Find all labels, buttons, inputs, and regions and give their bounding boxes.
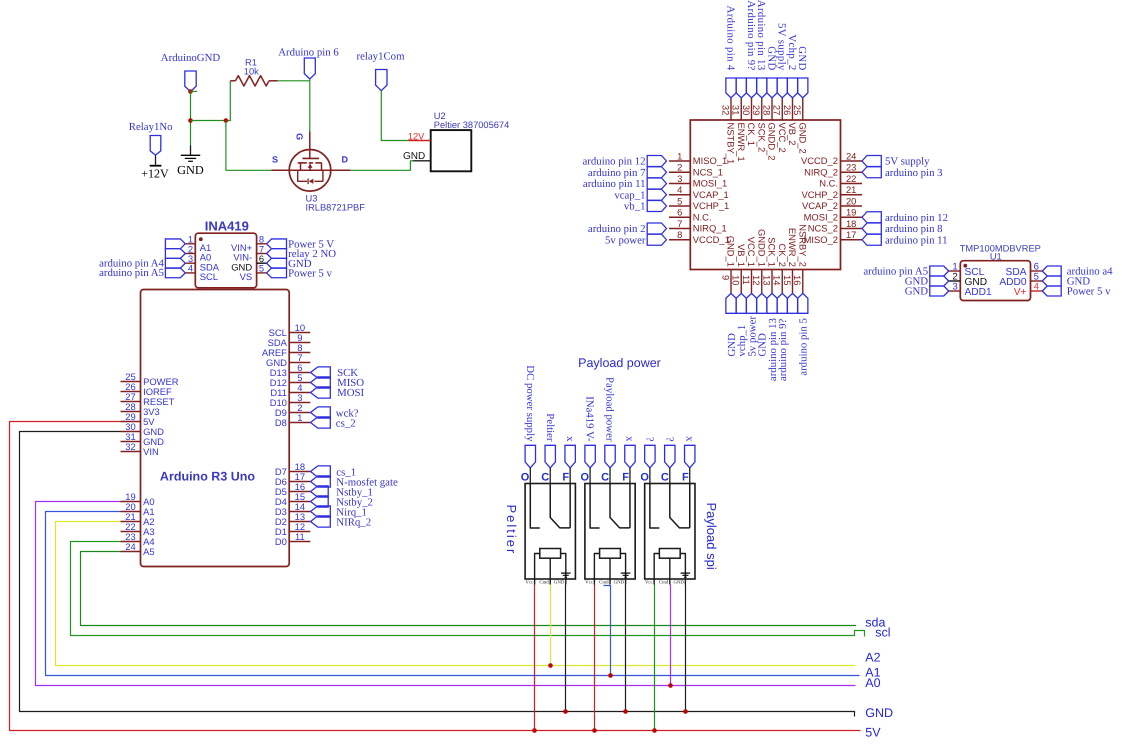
svg-text:28: 28 — [761, 105, 772, 115]
relay connector Payload spi — [645, 484, 695, 580]
svg-text:12: 12 — [751, 275, 762, 285]
svg-text:MISO_1: MISO_1 — [693, 155, 727, 166]
svg-text:3: 3 — [952, 282, 957, 293]
svg-text:19: 19 — [846, 207, 856, 218]
svg-text:O: O — [581, 471, 590, 483]
svg-text:6: 6 — [677, 207, 682, 218]
svg-text:S: S — [272, 155, 278, 165]
U4 top flags — [726, 78, 736, 98]
svg-text:25: 25 — [792, 105, 803, 115]
wire Relay1No to +12V — [155, 155, 157, 165]
svg-text:VIN: VIN — [143, 446, 159, 457]
svg-text:17: 17 — [846, 229, 856, 240]
svg-text:Cmd: Cmd — [539, 580, 549, 586]
svg-text:16: 16 — [792, 275, 803, 285]
svg-text:GNDD_1: GNDD_1 — [756, 229, 767, 267]
svg-text:x: x — [624, 436, 636, 442]
svg-text:NCS_1: NCS_1 — [693, 166, 723, 177]
Payload spi coil — [659, 549, 680, 559]
svg-text:DC power supply: DC power supply — [524, 365, 536, 442]
svg-text:D8: D8 — [275, 417, 287, 428]
U4 left pins 1-8 — [669, 160, 690, 162]
svg-text:Arduino pin 13: Arduino pin 13 — [755, 0, 767, 71]
svg-text:IRLB8721PBF: IRLB8721PBF — [306, 202, 366, 212]
svg-text:23: 23 — [846, 162, 856, 173]
svg-text:Power 5 v: Power 5 v — [1067, 286, 1111, 298]
svg-text:2: 2 — [677, 162, 682, 173]
svg-text:5: 5 — [677, 195, 682, 206]
svg-text:Vcc: Vcc — [645, 580, 653, 586]
U3 pin D — [331, 169, 351, 171]
svg-text:SCK_2: SCK_2 — [756, 123, 767, 153]
svg-text:Cmd: Cmd — [599, 580, 609, 586]
svg-text:31: 31 — [731, 105, 742, 115]
svg-text:Arduino pin 6: Arduino pin 6 — [278, 47, 339, 59]
svg-text:vb_1: vb_1 — [624, 201, 646, 213]
svg-text:29: 29 — [751, 105, 762, 115]
wire node B up to R1 — [229, 81, 231, 121]
svg-text:ENWR_1: ENWR_1 — [736, 123, 747, 162]
svg-text:Arduino pin 4: Arduino pin 4 — [724, 6, 736, 71]
svg-text:10: 10 — [731, 275, 742, 285]
svg-text:arduino pin 11: arduino pin 11 — [583, 178, 646, 190]
wire sda — [81, 552, 857, 626]
svg-text:SCK_1: SCK_1 — [767, 237, 778, 267]
relay connector Peltier — [525, 484, 575, 580]
U4 bottom pins 9-16 — [730, 270, 732, 294]
svg-text:O: O — [521, 471, 530, 483]
svg-text:A2: A2 — [865, 651, 880, 665]
junction at ArduinoGND flag — [188, 89, 193, 94]
wire A2 — [56, 522, 856, 666]
svg-text:Vcc: Vcc — [585, 580, 593, 586]
U1 left flags — [930, 266, 949, 276]
svg-text:CK_2: CK_2 — [777, 244, 788, 267]
junction 5V Vcc2 — [592, 728, 597, 733]
wire Cmd Payload power connector — [604, 586, 611, 676]
svg-text:VCC_2: VCC_2 — [777, 123, 788, 153]
svg-text:D: D — [341, 155, 348, 165]
svg-text:VCCD_2: VCCD_2 — [801, 155, 838, 166]
svg-text:MOSI_1: MOSI_1 — [693, 178, 727, 189]
svg-text:x: x — [683, 436, 695, 442]
svg-text:GND: GND — [554, 580, 565, 586]
svg-text:1: 1 — [677, 150, 682, 161]
svg-text:3: 3 — [677, 173, 682, 184]
svg-text:D0: D0 — [275, 536, 287, 547]
svg-text:8: 8 — [677, 229, 682, 240]
svg-text:F: F — [682, 471, 689, 483]
svg-text:GND: GND — [614, 580, 625, 586]
junction GND3 — [683, 709, 688, 714]
svg-text:27: 27 — [772, 105, 783, 115]
wire scl — [71, 542, 865, 637]
svg-text:+12V: +12V — [141, 166, 169, 180]
U1 right pins 4-6 — [1031, 270, 1043, 272]
svg-text:ENWR_2: ENWR_2 — [787, 228, 798, 267]
wire R1 to Arduino pin 6 node — [278, 80, 310, 82]
svg-text:NIRQ_2: NIRQ_2 — [804, 166, 838, 177]
U4 right pins 17-24 — [841, 160, 863, 162]
svg-text:Payload power: Payload power — [578, 356, 661, 370]
svg-text:VCAP_2: VCAP_2 — [802, 200, 838, 211]
svg-text:12V: 12V — [408, 131, 425, 141]
svg-text:5V supply: 5V supply — [776, 23, 788, 71]
svg-text:C: C — [541, 471, 549, 483]
svg-text:A0: A0 — [865, 676, 880, 690]
svg-text:4: 4 — [677, 184, 682, 195]
svg-text:VB_2: VB_2 — [787, 123, 798, 146]
svg-text:MOSI: MOSI — [337, 387, 364, 399]
svg-text:VB_1: VB_1 — [736, 244, 747, 267]
svg-text:vcap_1: vcap_1 — [614, 189, 645, 201]
wire A0 — [36, 502, 856, 686]
svg-text:Payload power: Payload power — [604, 377, 616, 442]
svg-text:INA419: INA419 — [205, 219, 249, 234]
junction A1 Cmd2 — [608, 673, 613, 678]
wire gate net — [309, 79, 311, 132]
svg-text:INa419 V-: INa419 V- — [584, 396, 596, 442]
flags cs_1 group on D7-D2 — [311, 466, 331, 477]
junction A2 Cmd1 — [548, 663, 553, 668]
svg-text:15: 15 — [782, 275, 793, 285]
mcu board Arduino R3 Uno — [141, 290, 290, 567]
svg-text:Peltier: Peltier — [544, 413, 556, 442]
svg-text:arduino pin 9?: arduino pin 9? — [777, 319, 789, 382]
svg-text:Vcc: Vcc — [525, 580, 533, 586]
junction GND1 — [563, 709, 568, 714]
svg-text:5: 5 — [259, 263, 264, 274]
wire GND Peltier connector — [565, 585, 567, 712]
svg-text:13: 13 — [761, 275, 772, 285]
svg-text:F: F — [622, 471, 629, 483]
svg-text:ADD1: ADD1 — [965, 287, 993, 298]
Payload power coil — [600, 549, 621, 559]
wire GND — [20, 432, 855, 717]
svg-text:NCS_2: NCS_2 — [808, 223, 838, 234]
svg-text:VCHP_2: VCHP_2 — [802, 189, 838, 200]
svg-text:arduino pin 11: arduino pin 11 — [885, 234, 948, 246]
Arduino right pins 1-10 — [289, 332, 310, 334]
Arduino left pins 25-32 — [121, 381, 141, 383]
svg-text:GND: GND — [177, 163, 204, 177]
svg-text:MOSI_2: MOSI_2 — [804, 211, 838, 222]
Payload spi internal ground — [681, 572, 691, 574]
svg-text:N.C.: N.C. — [693, 211, 712, 222]
svg-text:24: 24 — [125, 541, 135, 552]
svg-text:NSRBY_2: NSRBY_2 — [797, 224, 808, 267]
U5 right flags — [267, 239, 287, 249]
svg-text:30: 30 — [741, 105, 752, 115]
wire GND Payload power connector — [625, 585, 627, 712]
svg-text:GND_2: GND_2 — [797, 123, 808, 154]
wire Vcc Peltier connector — [534, 585, 536, 731]
svg-text:4: 4 — [188, 263, 193, 274]
junction 5V Vcc3 — [652, 728, 657, 733]
svg-text:Relay1No: Relay1No — [129, 121, 173, 133]
svg-text:C: C — [661, 471, 669, 483]
svg-text:Peltier: Peltier — [504, 505, 519, 556]
svg-text:VCCD_1: VCCD_1 — [693, 234, 730, 245]
svg-text:Payload spi: Payload spi — [704, 503, 719, 570]
svg-text:arduino pin 8: arduino pin 8 — [885, 223, 943, 235]
svg-text:Power 5 v: Power 5 v — [288, 268, 332, 280]
ground symbol GND — [190, 146, 192, 156]
svg-text:CK_1: CK_1 — [746, 123, 757, 146]
svg-text:arduino pin 5: arduino pin 5 — [798, 318, 810, 376]
svg-text:22: 22 — [846, 173, 856, 184]
wire Vcc Payload power connector — [594, 585, 596, 731]
svg-text:24: 24 — [846, 150, 856, 161]
U5 right pins 5-8 — [257, 243, 267, 245]
svg-text:GND_1: GND_1 — [726, 236, 737, 267]
svg-text:VS: VS — [240, 271, 253, 282]
svg-text:A5: A5 — [143, 546, 154, 557]
svg-text:V+: V+ — [1014, 287, 1027, 298]
svg-text:Vchp_2: Vchp_2 — [786, 34, 798, 70]
svg-text:11: 11 — [741, 275, 752, 285]
svg-text:10k: 10k — [244, 67, 259, 77]
svg-text:Peltier 387005674: Peltier 387005674 — [434, 120, 509, 130]
U4 bottom flags — [726, 293, 736, 313]
svg-text:arduino pin 2: arduino pin 2 — [588, 223, 646, 235]
svg-text:relay1Com: relay1Com — [357, 51, 406, 63]
U4 top pins 25-32 — [730, 98, 732, 120]
wire stub right of ArduinoGND — [191, 90, 198, 92]
svg-text:14: 14 — [772, 275, 783, 285]
relay connector Payload power — [585, 484, 635, 580]
U1 left pins 1-3 — [949, 270, 961, 272]
svg-text:GND: GND — [796, 46, 808, 70]
svg-text:Cmd: Cmd — [659, 580, 669, 586]
svg-text:NSTBY_1: NSTBY_1 — [726, 123, 737, 165]
junction 5V Vcc1 — [532, 728, 537, 733]
wire GND Payload spi connector — [685, 585, 687, 712]
power symbol +12V — [150, 165, 162, 167]
flags wck? cs_2 on D9 D8 — [311, 407, 331, 418]
svg-text:32: 32 — [125, 441, 135, 452]
svg-text:x: x — [564, 436, 576, 442]
wire relay1Com to 12V pin — [381, 91, 408, 141]
svg-text:arduino pin 12: arduino pin 12 — [885, 212, 948, 224]
svg-text:7: 7 — [677, 218, 682, 229]
svg-text:GND: GND — [403, 151, 425, 162]
svg-text:9: 9 — [720, 275, 731, 280]
svg-text:20: 20 — [846, 195, 856, 206]
wire Vcc Payload spi connector — [654, 585, 656, 731]
svg-text:G: G — [294, 133, 304, 140]
svg-text:scl: scl — [875, 626, 890, 640]
U5 left flags — [165, 239, 185, 249]
svg-text:?: ? — [663, 437, 675, 442]
junction GND2 — [623, 709, 628, 714]
svg-text:VCAP_1: VCAP_1 — [693, 189, 729, 200]
svg-text:26: 26 — [782, 105, 793, 115]
svg-text:4: 4 — [1034, 282, 1040, 293]
svg-text:NIRQ_1: NIRQ_1 — [693, 223, 727, 234]
Peltier internal ground — [561, 572, 571, 574]
svg-text:GND: GND — [765, 46, 777, 70]
dual interface IC U4 — [690, 120, 840, 270]
svg-text:21: 21 — [846, 184, 856, 195]
svg-text:cs_2: cs_2 — [336, 418, 356, 430]
svg-text:5v power: 5v power — [605, 234, 646, 246]
Peltier switch contacts — [530, 484, 540, 529]
svg-text:NIRq_2: NIRq_2 — [336, 517, 371, 529]
svg-text:5V supply: 5V supply — [885, 156, 930, 168]
svg-text:arduino pin 7: arduino pin 7 — [588, 167, 646, 179]
junction A0 Cmd3 — [668, 683, 673, 688]
Arduino right pins 11-18 — [289, 471, 310, 473]
Payload power switch contacts — [590, 484, 600, 529]
svg-text:arduino pin A5: arduino pin A5 — [99, 267, 164, 279]
U5 left pins 1-4 — [185, 243, 195, 245]
wire drain to U2 GND — [331, 161, 414, 171]
wire A1 — [46, 512, 860, 676]
svg-text:N.C.: N.C. — [819, 178, 838, 189]
U2 pin GND — [413, 160, 431, 162]
U4 right flags — [862, 156, 881, 167]
svg-text:C: C — [601, 471, 609, 483]
svg-text:GND: GND — [673, 580, 684, 586]
svg-text:F: F — [562, 471, 569, 483]
U4 left flags — [647, 156, 666, 167]
svg-text:1: 1 — [297, 412, 302, 423]
wire 5V — [10, 422, 861, 731]
junction node A — [188, 118, 193, 123]
svg-text:GNDD_2: GNDD_2 — [767, 123, 778, 161]
Arduino left pins 19-24 A0-A5 — [121, 501, 141, 503]
U3 pin S — [271, 169, 289, 171]
svg-text:GND: GND — [865, 706, 893, 720]
svg-text:GND: GND — [905, 286, 929, 298]
wire ArduinoGND down to ground — [190, 92, 192, 146]
U1 right flags — [1042, 266, 1061, 276]
svg-text:arduino pin 12: arduino pin 12 — [583, 156, 646, 168]
wire Cmd Payload spi connector — [670, 585, 672, 686]
svg-text:?: ? — [643, 437, 655, 442]
wire node B down to source — [226, 121, 271, 171]
svg-text:32: 32 — [720, 105, 731, 115]
payload global label flags — [525, 445, 535, 468]
svg-text:VCHP_1: VCHP_1 — [693, 200, 729, 211]
Payload spi switch contacts — [650, 484, 660, 529]
svg-text:SCL: SCL — [200, 271, 218, 282]
transistor U3 IRLB8721PBF — [289, 150, 331, 192]
flags SCK MISO MOSI on D13 D12 D11 — [311, 367, 331, 378]
svg-text:ArduinoGND: ArduinoGND — [161, 52, 221, 64]
wire node A to node B — [191, 120, 231, 122]
svg-text:arduino pin 3: arduino pin 3 — [885, 167, 943, 179]
U2 pin 12V — [409, 140, 431, 142]
svg-text:O: O — [640, 471, 649, 483]
junction node B — [224, 118, 229, 123]
svg-text:Arduino pin 9?: Arduino pin 9? — [745, 0, 757, 70]
svg-text:18: 18 — [846, 218, 856, 229]
Payload power internal ground — [621, 572, 631, 574]
svg-text:5V: 5V — [865, 726, 881, 740]
svg-text:Arduino R3 Uno: Arduino R3 Uno — [160, 469, 255, 483]
wire Cmd Peltier connector — [550, 585, 552, 666]
svg-text:11: 11 — [295, 531, 305, 542]
Peltier coil — [540, 549, 561, 559]
svg-text:VCC_1: VCC_1 — [746, 237, 757, 267]
